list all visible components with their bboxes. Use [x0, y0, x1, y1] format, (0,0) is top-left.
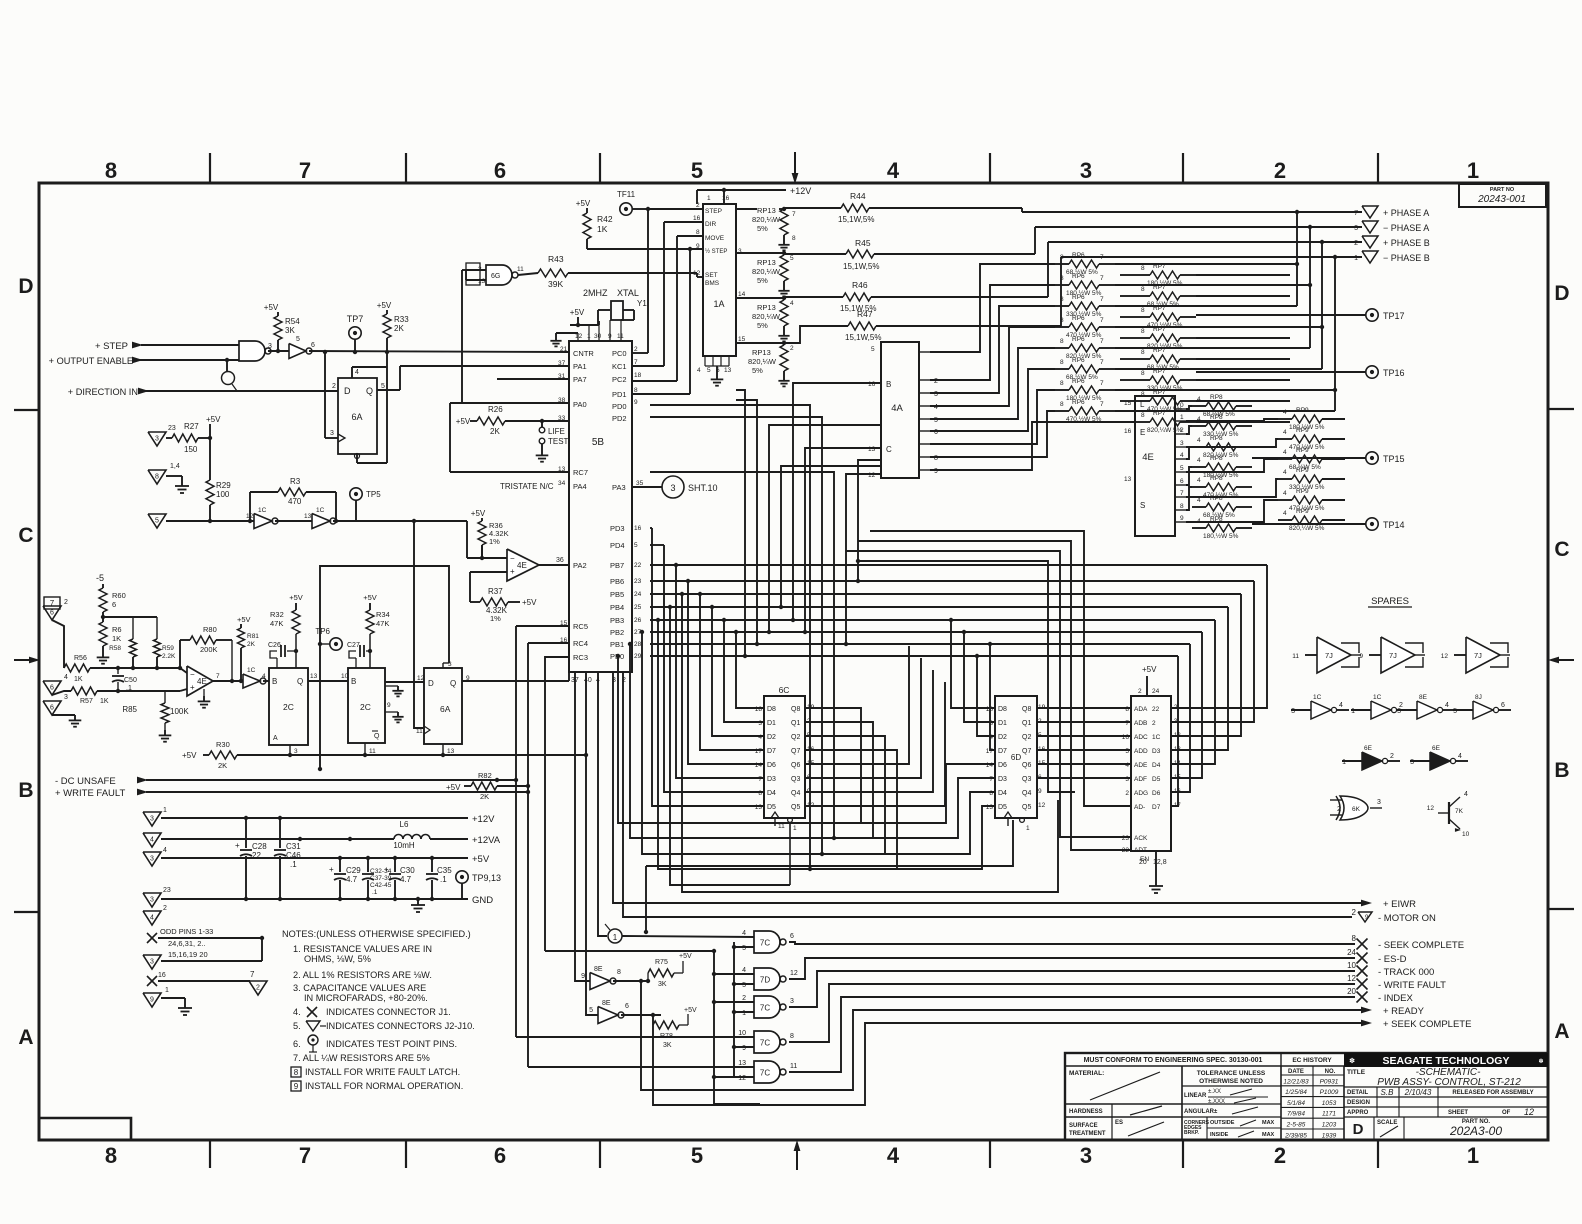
- latch 6C clock and enable pins: [771, 812, 797, 885]
- svg-text:RP6: RP6: [1072, 399, 1085, 406]
- svg-text:8: 8: [1060, 359, 1064, 366]
- connector J1 odd pins: [147, 927, 264, 959]
- inverter 1C second: [275, 507, 336, 529]
- svg-text:7: 7: [299, 1143, 311, 1168]
- svg-text:INSTALL FOR NORMAL OPERATION.: INSTALL FOR NORMAL OPERATION.: [305, 1081, 463, 1091]
- svg-text:KC1: KC1: [612, 362, 627, 371]
- svg-text:12: 12: [1038, 802, 1046, 809]
- svg-text:1: 1: [1351, 708, 1355, 715]
- svg-text:C31: C31: [286, 842, 301, 851]
- resistor R81 2K +5V: [237, 615, 259, 683]
- svg-text:12: 12: [417, 675, 425, 682]
- svg-text:SEAGATE TECHNOLOGY: SEAGATE TECHNOLOGY: [1383, 1055, 1510, 1067]
- resistor R42 1K: [576, 199, 703, 249]
- wire 5B RC7 drop: [650, 472, 836, 840]
- connector triangle GND-2: [143, 905, 167, 925]
- svg-text:D8: D8: [998, 706, 1007, 713]
- svg-text:9: 9: [1180, 515, 1184, 522]
- svg-text:C27: C27: [347, 642, 360, 649]
- svg-text:820,¼W 5%: 820,¼W 5%: [1289, 525, 1325, 532]
- 5B lower left pins RC5 RC4 RC3: [545, 620, 588, 662]
- wire 5B PC0 to 1A STEP: [632, 209, 703, 353]
- right bus vertical 2: [1115, 227, 1312, 348]
- capacitor C31 C46 .1: [274, 818, 301, 899]
- svg-text:8: 8: [989, 790, 993, 797]
- wire 6A bottom pin loop: [355, 367, 388, 463]
- svg-text:A: A: [18, 1026, 33, 1049]
- wire 5B bottom vertical 3 to EIWR: [613, 672, 1362, 903]
- right bus vertical 1: [1115, 212, 1299, 306]
- svg-text:D6: D6: [998, 762, 1007, 769]
- svg-text:2K: 2K: [480, 792, 489, 801]
- svg-text:TP15: TP15: [1383, 454, 1405, 464]
- svg-text:8: 8: [1141, 349, 1145, 356]
- wire under-route bus line 7: [680, 592, 1058, 892]
- svg-text:+ EIWR: + EIWR: [1383, 899, 1416, 910]
- sheet center arrow top: [792, 152, 799, 184]
- resistor R26 2K life test: [456, 405, 569, 436]
- wire 4A pin B to bus: [791, 383, 881, 622]
- svg-text:4E: 4E: [1142, 452, 1154, 463]
- output -MOTOR ON: [1352, 908, 1436, 924]
- svg-text:8: 8: [1141, 328, 1145, 335]
- svg-text:RP13: RP13: [757, 206, 776, 215]
- svg-text:13: 13: [986, 804, 994, 811]
- svg-text:4: 4: [1197, 396, 1201, 403]
- 5B right pin labels upper: [573, 346, 644, 570]
- svg-text:20: 20: [1347, 987, 1356, 996]
- svg-text:+5V: +5V: [522, 598, 537, 607]
- IC 1A body: [693, 195, 746, 356]
- buffer 6G after nand: [268, 336, 315, 359]
- svg-text:ADA: ADA: [1134, 706, 1148, 713]
- svg-text:P0931: P0931: [1320, 1078, 1339, 1085]
- svg-text:Q7: Q7: [791, 748, 800, 755]
- wire RC3 drop to gate feed: [545, 657, 569, 951]
- svg-text:34: 34: [558, 480, 566, 487]
- svg-text:4: 4: [1197, 437, 1201, 444]
- svg-text:16: 16: [693, 215, 701, 222]
- svg-text:TRISTATE N/C: TRISTATE N/C: [500, 482, 554, 491]
- svg-text:Q: Q: [366, 386, 373, 396]
- svg-text:9: 9: [150, 997, 154, 1004]
- svg-text:7: 7: [1125, 720, 1129, 727]
- svg-text:TP14: TP14: [1383, 520, 1405, 530]
- spare inverter 8E a: [1397, 694, 1455, 719]
- resistor R78 3K: [653, 1007, 697, 1049]
- wire 6C input brackets: [652, 528, 764, 806]
- svg-text:17: 17: [1174, 803, 1181, 809]
- svg-text:TITLE: TITLE: [1347, 1069, 1366, 1076]
- wire phase A bar line: [1035, 225, 1362, 254]
- spare inverter 1C b: [1351, 694, 1409, 719]
- svg-text:4: 4: [887, 1143, 900, 1168]
- resistor R44 15,1W,5%: [782, 191, 1022, 224]
- resistor R85 100K: [122, 691, 189, 742]
- svg-text:2K: 2K: [490, 427, 500, 436]
- wire 5B bottom vertical 37: [575, 672, 590, 981]
- svg-text:XTAL: XTAL: [617, 288, 639, 298]
- output - TRACK 000: [1347, 961, 1434, 978]
- svg-text:D3: D3: [767, 776, 776, 783]
- svg-text:ADD: ADD: [1134, 748, 1148, 755]
- resistor R59 2.2K: [154, 639, 177, 670]
- resistor R43 39K: [518, 254, 703, 289]
- svg-text:D3: D3: [1152, 748, 1161, 755]
- svg-text:24,6,31, 2..: 24,6,31, 2..: [168, 939, 206, 948]
- svg-text:10: 10: [341, 673, 349, 680]
- svg-text:IN MICROFARADS, +80-20%.: IN MICROFARADS, +80-20%.: [304, 993, 428, 1003]
- svg-text:4: 4: [1458, 753, 1462, 760]
- svg-text:5%: 5%: [757, 224, 768, 233]
- svg-text:14: 14: [1174, 761, 1181, 767]
- svg-text:- SEEK COMPLETE: - SEEK COMPLETE: [1378, 940, 1464, 951]
- svg-text:+ DIRECTION IN: + DIRECTION IN: [68, 387, 138, 397]
- svg-text:8: 8: [790, 1033, 794, 1040]
- svg-text:5: 5: [871, 346, 875, 353]
- svg-text:RP8: RP8: [1210, 475, 1223, 482]
- svg-text:8: 8: [696, 229, 700, 236]
- svg-text:C26: C26: [268, 642, 281, 649]
- svg-text:47K: 47K: [270, 619, 283, 628]
- svg-text:D4: D4: [998, 790, 1007, 797]
- nand gate 6G step input: [239, 341, 272, 361]
- svg-text:22: 22: [1122, 847, 1130, 854]
- connector triangle analog in 2: [43, 674, 71, 695]
- svg-text:10: 10: [1462, 831, 1470, 838]
- svg-text:− PHASE B: − PHASE B: [1383, 253, 1430, 263]
- svg-text:Q: Q: [450, 679, 456, 688]
- title block tolerance cell: [1182, 1066, 1281, 1140]
- svg-text:MATERIAL:: MATERIAL:: [1069, 1070, 1104, 1077]
- svg-text:14: 14: [738, 291, 746, 298]
- svg-text:150: 150: [184, 445, 198, 454]
- svg-text:PB7: PB7: [610, 561, 624, 570]
- svg-text:R27: R27: [184, 422, 199, 431]
- svg-text:RP6: RP6: [1072, 294, 1085, 301]
- svg-text:7: 7: [792, 211, 796, 218]
- capacitor C29 4.7: [329, 858, 361, 899]
- svg-text:Y1: Y1: [637, 299, 647, 308]
- zone numbers top: [105, 158, 1479, 183]
- svg-text:4: 4: [150, 915, 154, 922]
- spare xor gate 6K: [1330, 796, 1382, 820]
- svg-text:E: E: [1140, 428, 1145, 437]
- svg-text:LINEAR: LINEAR: [1184, 1093, 1207, 1099]
- wire under-route bus line 4: [656, 618, 995, 869]
- svg-text:RP6: RP6: [1072, 378, 1085, 385]
- connector triangle analog in 1: [43, 599, 68, 668]
- svg-text:+5V: +5V: [206, 415, 221, 424]
- svg-text:21: 21: [560, 346, 568, 353]
- svg-text:AD-: AD-: [1134, 804, 1145, 811]
- output - INDEX: [1347, 987, 1413, 1004]
- connector triangle 8 with ground: [148, 463, 189, 493]
- svg-text:SCALE: SCALE: [1377, 1120, 1397, 1126]
- svg-text:+12V: +12V: [472, 814, 495, 825]
- wire 5B PC2 to 1A MOVE: [632, 236, 703, 381]
- svg-text:+5V: +5V: [471, 509, 486, 518]
- resistor R57 1K: [71, 687, 180, 705]
- svg-text:9: 9: [387, 702, 391, 709]
- svg-text:PB4: PB4: [610, 603, 624, 612]
- spare buffer 7J 1: [1292, 637, 1361, 673]
- svg-text:9: 9: [1038, 788, 1042, 795]
- svg-text:RP6: RP6: [1072, 315, 1085, 322]
- resistor network RP13 820 bank4: [736, 343, 794, 386]
- svg-text:13: 13: [304, 513, 312, 520]
- svg-text:PC0: PC0: [612, 349, 627, 358]
- svg-text:2: 2: [742, 995, 746, 1002]
- svg-text:PA7: PA7: [573, 375, 587, 384]
- title block material cell: [1065, 1070, 1182, 1104]
- svg-text:20243-001: 20243-001: [1477, 194, 1526, 205]
- svg-text:11: 11: [369, 748, 376, 755]
- svg-text:OF: OF: [1502, 1110, 1511, 1116]
- svg-text:15,1W,5%: 15,1W,5%: [845, 333, 881, 342]
- svg-text:4.7: 4.7: [346, 875, 358, 884]
- svg-text:10: 10: [738, 1030, 746, 1037]
- wire -DC UNSAFE line: [146, 626, 545, 1037]
- svg-text:3. CAPACITANCE VALUES ARE: 3. CAPACITANCE VALUES ARE: [293, 983, 426, 993]
- input label +WRITE FAULT: [55, 788, 148, 799]
- svg-text:22: 22: [252, 851, 261, 860]
- svg-text:+ WRITE FAULT: + WRITE FAULT: [55, 788, 125, 799]
- svg-text:PB3: PB3: [610, 616, 624, 625]
- svg-text:D4: D4: [767, 790, 776, 797]
- svg-text:INDICATES TEST POINT PINS.: INDICATES TEST POINT PINS.: [326, 1039, 457, 1049]
- svg-text:3: 3: [1080, 158, 1092, 183]
- wire 5B PD2 drop: [650, 417, 824, 856]
- svg-text:7K: 7K: [1455, 808, 1464, 815]
- svg-text:15,1W,5%: 15,1W,5%: [843, 262, 879, 271]
- svg-text:31: 31: [558, 373, 566, 380]
- svg-text:NOTES:(UNLESS OTHERWISE SPECIF: NOTES:(UNLESS OTHERWISE SPECIFIED.): [282, 929, 471, 939]
- svg-text:24: 24: [634, 591, 642, 598]
- svg-text:2: 2: [634, 346, 638, 353]
- ground 5B pin 12: [550, 333, 578, 346]
- spare inverter 6E b: [1410, 745, 1468, 770]
- svg-text:6: 6: [112, 600, 116, 609]
- svg-text:C50: C50: [124, 677, 137, 684]
- svg-text:R81: R81: [247, 633, 259, 640]
- svg-text:RP6: RP6: [1072, 252, 1085, 259]
- svg-text:3: 3: [155, 436, 159, 443]
- test point TP16: [1196, 366, 1405, 378]
- op-amp 4E comparator (PA2): [507, 549, 569, 581]
- svg-text:R85: R85: [122, 705, 137, 714]
- svg-text:5%: 5%: [757, 321, 768, 330]
- svg-text:+ READY: + READY: [1383, 1006, 1425, 1017]
- svg-text:PD4: PD4: [610, 541, 625, 550]
- svg-text:1: 1: [1026, 825, 1030, 832]
- svg-text:4: 4: [1197, 457, 1201, 464]
- svg-text:+5V: +5V: [289, 593, 303, 602]
- svg-text:820,¼W 5%: 820,¼W 5%: [1147, 427, 1183, 434]
- svg-text:4: 4: [1125, 762, 1129, 769]
- svg-text:.1: .1: [372, 889, 378, 896]
- title block detail/design/appro rows: [1344, 1087, 1548, 1117]
- svg-text:8: 8: [105, 158, 117, 183]
- svg-text:2: 2: [332, 383, 336, 390]
- wire +STEP to gate: [141, 344, 239, 346]
- sheet center arrow left: [14, 657, 40, 664]
- svg-text:ADC: ADC: [1134, 734, 1148, 741]
- svg-text:1C: 1C: [258, 507, 267, 514]
- svg-text:Q2: Q2: [1022, 734, 1031, 741]
- svg-text:2C: 2C: [283, 702, 294, 712]
- spare inverter 6E a: [1342, 745, 1400, 770]
- svg-text:Q: Q: [297, 677, 303, 686]
- test point TP7: [347, 314, 364, 352]
- part number box top-right: [1459, 184, 1546, 207]
- svg-text:1K: 1K: [112, 634, 121, 643]
- svg-text:11: 11: [517, 266, 524, 273]
- nand gate 7C first: [734, 930, 794, 953]
- svg-text:C35: C35: [437, 866, 452, 875]
- svg-text:20: 20: [1139, 859, 1147, 866]
- wire phase A line: [1022, 208, 1362, 214]
- svg-text:+5V: +5V: [264, 303, 279, 312]
- svg-text:4A: 4A: [891, 403, 903, 414]
- inverter 1C analog: [243, 667, 269, 688]
- wire ready staircase: [641, 981, 1362, 1090]
- wire gate feed vertical x714: [545, 949, 760, 1104]
- resistor R56 1K: [64, 655, 180, 683]
- svg-text:Q5: Q5: [791, 804, 800, 811]
- svg-text:8: 8: [1141, 412, 1145, 419]
- svg-text:7C: 7C: [760, 1069, 770, 1078]
- svg-text:12: 12: [693, 270, 701, 277]
- svg-text:+ STEP: + STEP: [95, 341, 128, 352]
- svg-text:RP8: RP8: [1210, 435, 1223, 442]
- 2A pin labels: [1122, 705, 1182, 866]
- output +READY: [1361, 1006, 1425, 1017]
- svg-text:5: 5: [691, 158, 703, 183]
- svg-text:ADB: ADB: [1134, 720, 1147, 727]
- svg-text:200K: 200K: [200, 645, 218, 654]
- svg-text:+ SEEK COMPLETE: + SEEK COMPLETE: [1383, 1019, 1471, 1030]
- svg-text:2K: 2K: [218, 761, 227, 770]
- svg-text:D: D: [1353, 1121, 1364, 1138]
- svg-text:− PHASE A: − PHASE A: [1383, 223, 1429, 233]
- svg-text:.1: .1: [440, 875, 447, 884]
- svg-text:9: 9: [294, 1082, 299, 1091]
- svg-text:D1: D1: [767, 720, 776, 727]
- svg-text:15,16,19 20: 15,16,19 20: [168, 950, 208, 959]
- wire 5B bottom vertical 40: [586, 672, 598, 1015]
- wire gate2 output staircase: [789, 958, 1355, 979]
- svg-text:5: 5: [1125, 748, 1129, 755]
- svg-text:2C: 2C: [360, 702, 371, 712]
- wire 5B bottom vertical 4: [598, 672, 607, 936]
- svg-text:PC2: PC2: [612, 375, 627, 384]
- svg-text:7: 7: [1180, 490, 1184, 497]
- svg-text:3: 3: [670, 483, 675, 493]
- svg-text:1: 1: [165, 987, 169, 994]
- wire comb vertical e: [856, 460, 881, 583]
- svg-text:SHT.10: SHT.10: [688, 483, 718, 493]
- svg-text:202A3-00: 202A3-00: [1449, 1124, 1502, 1138]
- svg-text:7: 7: [1100, 275, 1104, 282]
- svg-text:S.B: S.B: [1381, 1088, 1395, 1097]
- wire 6D input verticals from bus: [949, 618, 995, 750]
- svg-text:6: 6: [1501, 702, 1505, 709]
- spares title: [1368, 596, 1412, 607]
- svg-text:L: L: [1140, 400, 1145, 409]
- wire comb vertical d: [779, 466, 881, 609]
- svg-text:1C: 1C: [1313, 694, 1322, 701]
- svg-text:D: D: [428, 679, 434, 688]
- svg-text:R59: R59: [162, 645, 174, 652]
- wire +12VA rail: [161, 837, 468, 841]
- test point TP14: [1252, 518, 1405, 530]
- svg-text:CNTR: CNTR: [573, 349, 594, 358]
- svg-text:Q6: Q6: [791, 762, 800, 769]
- svg-text:D2: D2: [998, 734, 1007, 741]
- svg-text:16: 16: [158, 972, 166, 979]
- svg-text:23: 23: [168, 425, 176, 432]
- svg-text:2/10/43: 2/10/43: [1404, 1088, 1432, 1097]
- svg-text:+: +: [329, 865, 334, 874]
- svg-text:820,¼W: 820,¼W: [752, 267, 781, 276]
- svg-text:4: 4: [262, 673, 266, 680]
- svg-text:Q6: Q6: [1022, 762, 1031, 769]
- resistor R37 4.32K 1% feedback: [470, 572, 537, 623]
- svg-text:12: 12: [575, 333, 583, 340]
- svg-text:-5: -5: [96, 573, 104, 583]
- svg-text:6.: 6.: [293, 1039, 301, 1049]
- test point TP15: [1252, 452, 1405, 464]
- flip-flop 6A lower half: [416, 661, 470, 755]
- wire stack4 outputs right: [1322, 419, 1345, 500]
- wire phase B line: [1048, 240, 1362, 297]
- svg-text:7/9/84: 7/9/84: [1287, 1111, 1305, 1118]
- svg-text:7J: 7J: [1474, 651, 1482, 660]
- svg-text:3K: 3K: [285, 326, 295, 335]
- latch 6D pin labels: [986, 704, 1046, 811]
- svg-text:+12V: +12V: [790, 186, 811, 196]
- svg-text:6: 6: [1180, 478, 1184, 485]
- svg-text:PA4: PA4: [573, 482, 587, 491]
- svg-text:R47: R47: [857, 309, 873, 319]
- svg-text:PA1: PA1: [573, 362, 587, 371]
- svg-text:4: 4: [1283, 490, 1287, 497]
- wire gate3 output staircase: [789, 971, 1355, 1007]
- connector triangle analog gnd: [43, 694, 81, 727]
- svg-text:2: 2: [1274, 158, 1286, 183]
- svg-text:8E: 8E: [594, 966, 603, 973]
- svg-text:R80: R80: [203, 625, 217, 634]
- svg-text:3: 3: [150, 959, 154, 966]
- svg-text:1K: 1K: [100, 698, 109, 705]
- resistor R6 1K: [97, 622, 122, 664]
- svg-text:7: 7: [1100, 359, 1104, 366]
- svg-text:RP6: RP6: [1072, 273, 1085, 280]
- svg-text:9: 9: [466, 675, 470, 682]
- svg-text:5: 5: [1453, 708, 1457, 715]
- wire 6A pin3 loop to DC-unsafe line: [318, 566, 449, 771]
- grounds at 2C2 outputs: [385, 686, 404, 722]
- svg-text:2. ALL 1% RESISTORS ARE ⅛W.: 2. ALL 1% RESISTORS ARE ⅛W.: [293, 970, 432, 980]
- spare inverter 1C a: [1291, 694, 1349, 719]
- wire comb vertical b: [736, 400, 759, 646]
- svg-text:12: 12: [790, 970, 798, 977]
- zone letters right: [1554, 282, 1569, 1043]
- resistor stack RP7 column2: [1136, 263, 1196, 434]
- connector J1 pin 16 to J2 pin 7: [147, 970, 267, 995]
- inductor L6 10mH: [393, 820, 430, 850]
